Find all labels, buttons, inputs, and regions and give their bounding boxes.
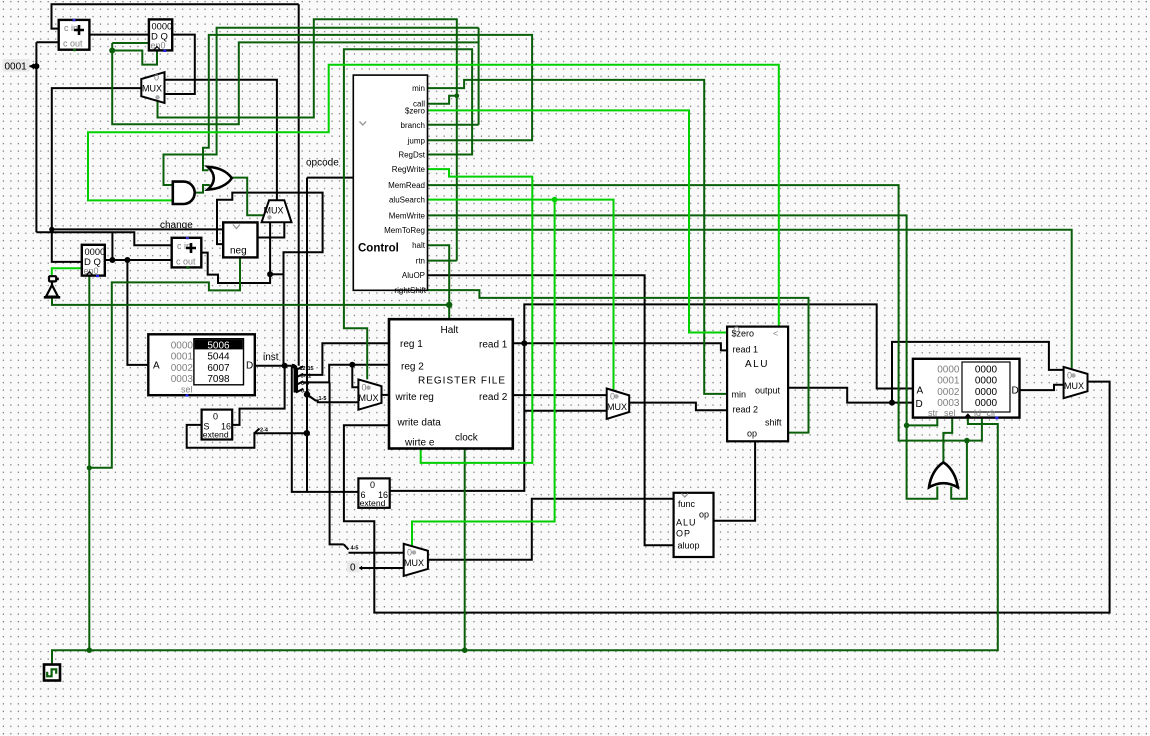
TEXTLABELS: [160, 158, 358, 552]
svg-text:ld: ld: [974, 408, 981, 418]
svg-text:OP: OP: [676, 529, 691, 539]
mux M5: [1064, 367, 1088, 398]
svg-text:A: A: [153, 361, 160, 372]
wire jump net: [203, 35, 532, 170]
constant 0: [347, 561, 362, 574]
svg-text:MUX: MUX: [142, 84, 162, 94]
svg-text:0: 0: [610, 392, 615, 402]
wire ground line: [52, 298, 449, 305]
rom U4: [148, 334, 255, 396]
ram U10: [913, 359, 1020, 419]
svg-text:MemToReg: MemToReg: [384, 226, 425, 235]
svg-text:6007: 6007: [207, 363, 230, 374]
svg-text:aluSearch: aluSearch: [389, 196, 425, 205]
svg-text:0-3: 0-3: [301, 389, 309, 395]
svg-text:4-5: 4-5: [351, 546, 359, 552]
wire MUX4 out to ALUOP func: [428, 499, 674, 560]
wire RegWrite net: [421, 169, 533, 463]
node read1 junction: [521, 340, 527, 346]
svg-text:en0: en0: [84, 266, 99, 276]
wire halt net: [428, 245, 450, 319]
svg-text:MemWrite: MemWrite: [389, 211, 426, 220]
svg-text:8-11: 8-11: [301, 374, 312, 380]
mux M2: [262, 200, 292, 222]
mux M4: [404, 544, 428, 576]
svg-text:7098: 7098: [207, 374, 230, 385]
node ram ld junction: [964, 438, 970, 444]
svg-text:c out: c out: [63, 39, 83, 49]
svg-text:D: D: [246, 361, 253, 372]
wire reg1 clk loop: [112, 50, 157, 64]
wire rightShift net: [428, 290, 809, 433]
wire RAM D out to MUX5 in2: [1020, 385, 1064, 390]
svg-text:min: min: [732, 390, 747, 400]
wire aluSearch branch to MUX4 sel: [412, 200, 555, 546]
wire junction east arm: [270, 273, 283, 275]
svg-text:MUX: MUX: [404, 558, 424, 568]
svg-text:aluop: aluop: [678, 541, 700, 551]
svg-text:AluOP: AluOP: [402, 271, 425, 280]
wire reg2 branch to MUX3a in1: [352, 365, 358, 388]
and gate G1: [173, 182, 195, 204]
wire const0 to MUX4 in2: [359, 567, 404, 569]
svg-text:sel: sel: [944, 408, 956, 418]
node inst junction: [282, 363, 288, 369]
svg-text:MUX: MUX: [359, 393, 379, 403]
svg-text:2-4: 2-4: [260, 428, 269, 434]
svg-text:0-4: 0-4: [301, 381, 310, 387]
wire MUX3a out to write reg: [382, 394, 390, 396]
svg-text:0001: 0001: [937, 376, 960, 387]
svg-text:reg 1: reg 1: [400, 339, 423, 350]
wire leg2 to RF reg1: [303, 343, 389, 375]
wire MUX1 out / change / PC D: [52, 88, 142, 262]
node alu out junction: [889, 400, 895, 406]
wire AND out to OR in2: [195, 185, 210, 193]
node clock jog junction: [87, 465, 92, 470]
svg-text:halt: halt: [412, 241, 426, 250]
wire splitter small diag: [254, 429, 259, 434]
node clock rf junction: [462, 647, 468, 653]
node ram str junction: [904, 423, 910, 429]
wire ALU out branch to MUX5 in1: [892, 342, 1064, 403]
svg-text:branch: branch: [401, 121, 425, 130]
wire adder2 out zigzag to MUX2 inA: [201, 222, 270, 283]
svg-text:rightShift: rightShift: [394, 286, 426, 295]
wire RAM sel from OR out: [943, 418, 952, 464]
svg-text:REGISTER FILE: REGISTER FILE: [418, 376, 506, 387]
splitter S1: [292, 366, 304, 393]
svg-text:read 2: read 2: [479, 392, 508, 403]
node PC q rom drop: [124, 257, 130, 263]
wire reg1 Q to MUX1 in2: [165, 35, 195, 94]
svg-text:5006: 5006: [207, 340, 230, 351]
svg-text:1-5: 1-5: [319, 396, 327, 402]
svg-text:MUX: MUX: [264, 206, 284, 216]
wire top bus to adder1: [52, 4, 299, 28]
svg-text:clock: clock: [455, 433, 479, 444]
wire min net: [428, 80, 728, 394]
wire 0001 net down to adder2 A: [36, 232, 171, 245]
svg-text:MUX: MUX: [1064, 381, 1084, 391]
wire opcode to control: [307, 177, 353, 179]
svg-text:0000: 0000: [975, 376, 998, 387]
svg-text:min: min: [412, 84, 425, 93]
wire MUX3 out to ALU read2: [629, 403, 727, 411]
svg-text:clr: clr: [987, 408, 997, 418]
svg-text:output: output: [755, 386, 781, 396]
svg-text:write reg: write reg: [395, 392, 434, 403]
svg-text:read 2: read 2: [733, 405, 759, 415]
svg-text:5044: 5044: [207, 352, 230, 363]
svg-text:0: 0: [370, 480, 375, 490]
svg-text:Halt: Halt: [441, 325, 459, 336]
wire 0001 pin to adder1 B: [30, 42, 59, 232]
wire rtn pin: [428, 260, 457, 262]
wire PC Q to adder2 B: [104, 259, 172, 261]
wire $zero net: [428, 110, 728, 332]
wire long vertical top bus to inst: [298, 4, 300, 366]
svg-text:0000: 0000: [152, 22, 173, 32]
WIRES_DKGREEN: [52, 19, 1072, 664]
wire inst bus: [255, 365, 292, 367]
WIRES_BLACK: [30, 4, 1110, 612]
svg-text:shift: shift: [765, 418, 782, 428]
mux M1: [141, 72, 164, 103]
svg-text:jump: jump: [407, 136, 426, 145]
svg-text:0: 0: [154, 73, 159, 83]
wire PC Q down to ROM A: [127, 260, 148, 365]
wire input pin to PC en: [52, 268, 82, 276]
svg-text:read 1: read 1: [479, 340, 508, 351]
wire reg1 en: [112, 43, 149, 51]
wire read2 to MUX3: [513, 394, 607, 396]
svg-text:0: 0: [407, 548, 412, 558]
wire RegDst net: [344, 49, 472, 379]
wire splitter leg4 diag to MUX3a in2: [307, 395, 358, 403]
wire AluOP to ALUOP unit: [428, 275, 674, 545]
wire neg out to MUX2 inB: [258, 222, 285, 237]
node clock pc junction: [87, 647, 93, 653]
svg-text:read 1: read 1: [733, 345, 759, 355]
node mux2 inA junction: [267, 271, 273, 277]
svg-text:op: op: [699, 510, 709, 520]
wire ALU output to RAM D: [788, 388, 913, 403]
svg-text:0001: 0001: [5, 62, 28, 73]
wire MemWrite net: [428, 215, 938, 498]
svg-text:op: op: [747, 429, 757, 439]
wire aluSearch net: [428, 200, 614, 390]
svg-text:0000: 0000: [975, 364, 998, 375]
svg-text:ALU: ALU: [745, 359, 769, 370]
wire 4-5 to MUX4 in1: [349, 552, 404, 554]
register R2 PC: [82, 245, 105, 277]
node halt ground junction: [446, 302, 452, 308]
svg-text:12-15: 12-15: [300, 366, 314, 372]
neg box U2: [223, 222, 257, 257]
svg-text:sel: sel: [181, 385, 193, 395]
svg-text:c in: c in: [64, 23, 78, 33]
wire ALU op: [714, 441, 756, 521]
node call junction: [454, 93, 459, 98]
wire ext2 branch to MUX3 in2: [524, 410, 606, 412]
wire less-than net to AND in2: [88, 65, 779, 327]
svg-text:A: A: [917, 386, 924, 397]
svg-text:$zero: $zero: [405, 107, 426, 116]
svg-text:0000: 0000: [171, 340, 194, 351]
svg-text:0: 0: [350, 563, 356, 574]
wire call jog: [428, 96, 457, 104]
node reg1en junction: [109, 48, 115, 54]
svg-text:MUX: MUX: [607, 402, 627, 412]
node PC q riser: [109, 257, 115, 263]
mux M3a writeReg: [358, 379, 381, 409]
or gate G2: [208, 167, 232, 190]
wire MemWrite branch to RAM str: [907, 418, 938, 426]
svg-text:MemRead: MemRead: [388, 181, 425, 190]
mux M3: [607, 389, 630, 419]
node 0001 pin: [33, 63, 39, 69]
svg-text:D: D: [916, 399, 923, 410]
svg-text:0: 0: [213, 412, 218, 422]
wire branch net vertical: [478, 28, 480, 125]
wire clock to RF clock: [464, 449, 466, 651]
svg-text:0000: 0000: [937, 364, 960, 375]
node aluSearch junction: [552, 197, 558, 203]
svg-text:write data: write data: [397, 418, 442, 429]
svg-text:0002: 0002: [937, 387, 960, 398]
or gate G3 up: [929, 462, 958, 487]
wire write data: [344, 382, 1110, 613]
svg-text:Control: Control: [358, 243, 399, 255]
input pin 0001: [2, 59, 34, 73]
wire leg3 to RF reg2: [303, 365, 389, 383]
wire extender2 out: [390, 304, 913, 491]
wire OR out to MUX2 sel: [232, 178, 264, 216]
alu U8: [727, 327, 788, 442]
wire riser 0001-line to PC Q line: [111, 232, 113, 260]
svg-text:rtn: rtn: [416, 257, 425, 266]
wire change to neg in1: [52, 228, 223, 230]
control unit U3: [353, 75, 427, 295]
svg-text:inst: inst: [263, 352, 279, 363]
svg-text:$zero: $zero: [732, 329, 755, 339]
wire MemRead branch to OR in2: [951, 441, 967, 499]
svg-text:ALU: ALU: [676, 518, 697, 528]
wire adder1 out to reg1 D: [89, 34, 148, 36]
WIRES_BRGREEN: [52, 65, 779, 546]
wire 4-5 diag: [344, 544, 349, 549]
wire MUX2 out to MUX1 in1: [165, 80, 277, 201]
wire reg1-en net down: [112, 42, 478, 124]
wire MemToReg net to MUX5 sel: [428, 230, 1072, 369]
svg-text:reg 2: reg 2: [401, 362, 424, 373]
wire clock distribution: [52, 418, 998, 664]
wire MUX1 sel net: [158, 19, 457, 260]
svg-text:0: 0: [1067, 371, 1072, 381]
svg-text:func: func: [678, 499, 696, 509]
svg-text:neg: neg: [230, 246, 247, 257]
wire neg in2 top jog: [217, 193, 323, 366]
svg-text:str: str: [928, 408, 938, 418]
svg-text:change: change: [160, 220, 193, 231]
node reg2 branch junction: [349, 362, 355, 368]
node splitter leg4 junction: [304, 391, 310, 397]
wire inst down to extender2: [292, 366, 359, 492]
ground symbol: [44, 282, 60, 298]
wire extender1 loop: [232, 366, 284, 425]
adder A1: [59, 19, 90, 51]
aluop unit U9: [674, 493, 714, 557]
wire clock to neg bottom: [89, 259, 240, 468]
wire clock to PC clk: [88, 276, 90, 651]
extender U5: [202, 410, 233, 440]
extender U7: [358, 478, 389, 508]
wire branch to AND in1: [164, 28, 479, 185]
svg-text:en0: en0: [151, 41, 166, 51]
wire extender1 input loop: [187, 425, 307, 448]
svg-text:D: D: [1012, 386, 1019, 397]
svg-text:0: 0: [362, 383, 367, 393]
wire read1 to ALU: [513, 343, 727, 350]
svg-text:0001: 0001: [171, 352, 194, 363]
wire opcode vertical: [306, 178, 308, 492]
svg-text:0000: 0000: [975, 387, 998, 398]
svg-text:opcode: opcode: [306, 158, 339, 169]
clock component: [44, 665, 60, 681]
svg-text:extend: extend: [203, 430, 229, 440]
svg-text:c out: c out: [176, 256, 196, 266]
node ext1 junction: [304, 430, 310, 436]
svg-text:0002: 0002: [171, 363, 194, 374]
register R1: [149, 19, 172, 52]
wire leg3 net down to 4-5 split: [330, 382, 344, 544]
wire branch pin: [428, 124, 479, 126]
wire MemRead net: [428, 185, 982, 441]
svg-text:RegWrite: RegWrite: [392, 165, 426, 174]
register file U6: [389, 319, 513, 448]
input pin square: [49, 276, 56, 281]
node change junction: [49, 227, 54, 232]
svg-text:0000: 0000: [85, 247, 106, 257]
adder A2: [172, 237, 202, 269]
svg-text:extend: extend: [360, 498, 386, 508]
svg-text:<: <: [773, 329, 778, 339]
svg-text:wirte e: wirte e: [404, 438, 435, 449]
svg-text:RegDst: RegDst: [398, 151, 425, 160]
